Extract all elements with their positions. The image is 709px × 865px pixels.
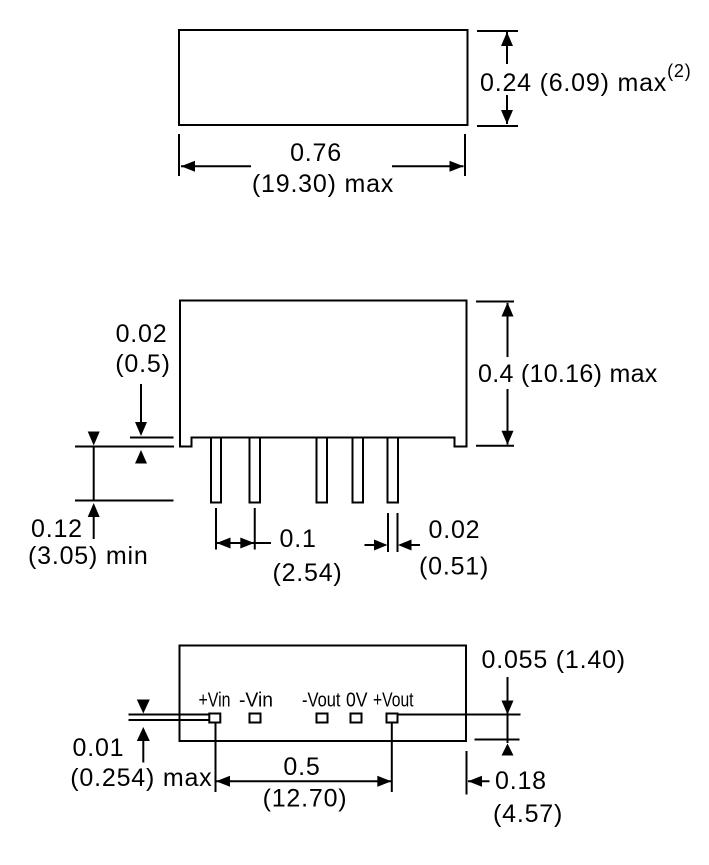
dim 0.02 pin width: right extension line [397,513,399,552]
svg-text:0.02: 0.02 [116,320,168,348]
svg-text:0.18: 0.18 [495,767,547,795]
dim 0.5: dimension line [216,780,392,782]
dim 0.01: up arrowhead [137,727,150,741]
dim 0.4: upper arrowhead [502,303,514,317]
svg-text:(0.51): (0.51) [419,553,489,581]
bottom view: package body outline [180,646,467,742]
dim 0.1 pitch: left arrowhead [217,538,231,549]
svg-text:-Vout: -Vout [302,690,341,712]
pad 3 (-Vout) [317,714,328,723]
lead line from +Vout pad to right [398,714,521,716]
dim 0.01: down arrowhead [137,700,150,714]
dim 0.4: dimension line [507,303,509,445]
pin tip extension line [75,500,174,502]
svg-text:0V: 0V [346,690,368,712]
dim 0.055: down arrowhead [502,701,514,715]
dim 0.18: arrowhead [468,776,482,787]
dim 0.5: right arrowhead [377,776,391,787]
svg-text:0.12: 0.12 [31,515,83,543]
dim 0.4: label background mask [476,357,660,389]
svg-text:0.1: 0.1 [280,525,317,553]
svg-text:(4.57): (4.57) [493,800,563,828]
side view: pin 3 [317,438,328,503]
body bottom extension line [130,437,174,439]
svg-text:0.4 (10.16) max: 0.4 (10.16) max [478,360,658,388]
svg-text:(3.05) min: (3.05) min [28,542,149,570]
svg-text:-Vin: -Vin [239,690,273,712]
pad 5 (+Vout) [387,714,398,723]
dim 0.5: left arrowhead [216,776,230,787]
dim 0.18: arrow tail [468,780,490,782]
dim 0.4: lower arrowhead [502,431,514,445]
dim 0.76: dimension line right segment [392,165,464,167]
svg-text:(2.54): (2.54) [272,559,342,587]
pad 2 (-Vin) [250,714,261,723]
dim 0.01: up arrow tail [142,741,144,763]
dim 0.12: lower arrow tail [93,517,95,539]
dim 0.76: left extension line [178,134,180,176]
side view: pin 5 [388,438,399,503]
dim 0.02 pin width: left arrow tail [365,544,379,546]
tab bottom extension line [75,446,174,448]
svg-text:+Vin: +Vin [199,690,231,712]
dim 0.5: right extension line [391,723,393,793]
dim 0.02 standoff: leader down arrow line [140,384,142,424]
dim 0.76: right arrowhead [450,161,464,172]
dim 0.02 standoff: up arrowhead [135,450,147,464]
dim 0.24: label background mask [478,64,695,95]
dim 0.24: top extension line [477,30,518,32]
dim 0.76: left arrowhead [181,161,195,172]
svg-text:0.76: 0.76 [290,139,342,167]
dim 0.24: upper arrowhead [501,32,513,46]
dim 0.1 pitch: dimension line with tail [216,542,271,544]
pad 1 (+Vin) [209,714,220,723]
dim 0.12: dimension line [93,447,95,501]
dim 0.1 pitch: left extension line [215,508,217,550]
svg-text:0.5: 0.5 [283,753,320,781]
svg-text:(19.30) max: (19.30) max [252,170,394,198]
svg-text:+Vout: +Vout [373,690,414,712]
pin thickness lower line [129,719,210,721]
pad 4 (0V) [351,714,362,723]
dim 0.055: up arrowhead [502,744,514,756]
svg-text:(0.254) max: (0.254) max [70,764,212,792]
dim 0.055: dimension line [507,677,509,743]
dim 0.24: dimension line [506,32,508,124]
dim 0.02 pin width: right arrow tail [409,544,420,546]
dim 0.4: bottom extension line [476,445,514,447]
side view: pin 2 [250,438,261,503]
top view: package body outline [179,30,468,125]
dim 0.76: dimension line left segment [181,165,251,167]
dim 0.02 standoff: down arrowhead [135,422,147,436]
dim 0.4: top extension line [476,301,514,303]
svg-text:0.055 (1.40): 0.055 (1.40) [482,646,626,674]
svg-text:0.02: 0.02 [429,516,481,544]
dim 0.1 pitch: right extension line [254,508,256,550]
dim 0.02 pin width: right arrowhead [398,540,412,551]
svg-text:(12.70): (12.70) [263,785,348,813]
side view: package body outline [180,301,467,447]
dim 0.12: lower arrowhead [88,503,100,517]
dim 0.02 pin width: left arrowhead [374,540,388,551]
dim 0.5: left extension line [215,723,217,793]
svg-text:(0.5): (0.5) [115,350,170,378]
pin thickness upper line [129,714,210,716]
dim 0.76: right extension line [464,134,466,176]
svg-text:0.01: 0.01 [73,734,125,762]
dim 0.02 pin width: left extension line [387,513,389,552]
dim 0.18: extension line [466,751,468,795]
dim 0.24: bottom extension line [477,125,518,127]
side view: pin 4 [353,438,364,503]
dim 0.1 pitch: right arrowhead [240,538,254,549]
side view: pin 1 [211,438,221,503]
dim 0.12: upper arrowhead [88,432,100,446]
dim 0.24: lower arrowhead [501,110,513,124]
body bottom extension line right [475,739,520,741]
